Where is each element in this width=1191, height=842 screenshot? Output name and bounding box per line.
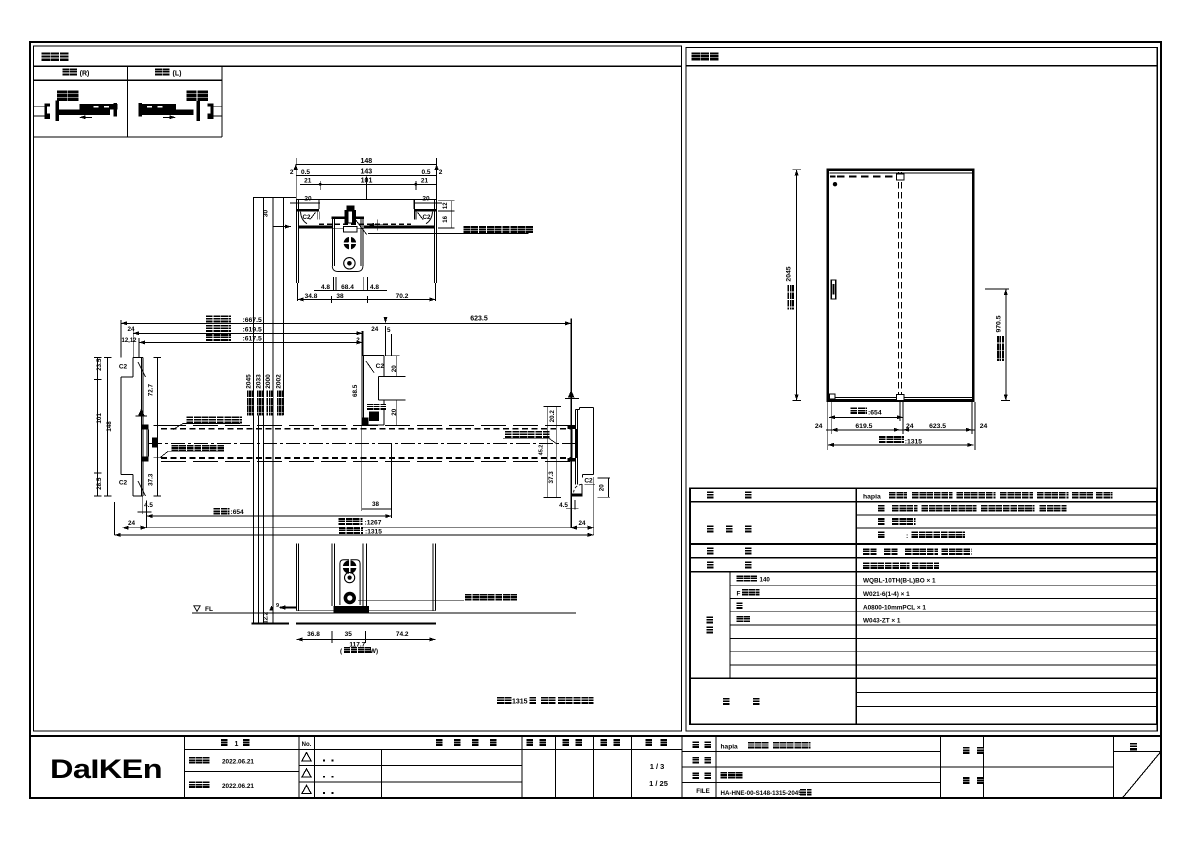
right jamb profile	[580, 407, 594, 409]
lock leader text	[505, 431, 550, 438]
door panel centerline	[148, 442, 576, 444]
svg-text:4.8: 4.8	[321, 284, 330, 291]
revision history sub divider	[381, 750, 383, 798]
spec table thick section lines	[690, 501, 1157, 503]
top detail group	[253, 158, 533, 303]
mohair seal	[367, 404, 386, 410]
door panel top line	[161, 424, 570, 426]
guide lower roller	[344, 592, 356, 604]
long dim vertical 2000	[262, 197, 264, 623]
corner guide bottom left	[830, 394, 836, 399]
dim 101 line	[300, 183, 436, 185]
svg-text:34.8: 34.8	[305, 293, 318, 300]
svg-text:24: 24	[371, 326, 379, 333]
left jamb face pair	[141, 358, 143, 496]
mini diagram right cell arrow	[80, 116, 92, 118]
roller housing walls	[331, 219, 333, 266]
right jamb extension vertical to bottom dims	[593, 477, 595, 535]
door panel bottom line	[161, 460, 570, 462]
label zumei	[693, 772, 699, 779]
pocket dashed vertical pair	[897, 172, 899, 398]
long dim vertical aux	[282, 197, 284, 415]
svg-text:24: 24	[127, 326, 135, 333]
left panel border	[34, 46, 682, 731]
title block top line	[30, 735, 1161, 737]
svg-text:1: 1	[235, 741, 239, 748]
header hidaribiki L	[155, 69, 170, 76]
right section row lines	[682, 751, 941, 753]
ext verticals top of middle	[120, 320, 122, 358]
svg-text:619.5: 619.5	[855, 423, 872, 430]
dim height 2045	[796, 170, 798, 401]
left jamb step bar	[296, 209, 319, 212]
mini diagram right cell wall lines	[34, 105, 45, 107]
dim 38 under middle jamb	[362, 508, 392, 510]
left jamb bottom chamfer	[138, 481, 146, 496]
svg-text:4.5: 4.5	[559, 502, 568, 509]
middle jamb chamfer	[366, 361, 374, 373]
long dim vertical 2045	[252, 197, 254, 623]
line under shomenzu	[686, 65, 1157, 67]
svg-text:C2: C2	[119, 363, 128, 370]
label shiage	[707, 525, 714, 532]
note bottom left	[497, 697, 594, 706]
pocket top square	[896, 174, 903, 180]
svg-text:W): W)	[370, 648, 378, 655]
svg-text:623.5: 623.5	[929, 423, 946, 430]
value finish frame	[878, 532, 884, 539]
diagonal strike line	[355, 219, 367, 235]
connector box	[344, 227, 357, 232]
svg-text:12: 12	[443, 202, 449, 209]
svg-text:148: 148	[360, 158, 372, 165]
label hinban2	[693, 757, 699, 764]
right jamb hook profile	[413, 212, 415, 220]
guide upper roller	[343, 560, 357, 574]
svg-text:68.5: 68.5	[352, 384, 359, 397]
svg-text:140: 140	[760, 576, 771, 583]
dim handle height 970.5	[1005, 289, 1007, 401]
header sakusei	[601, 739, 608, 746]
leader warp note	[187, 417, 242, 424]
svg-text:16: 16	[443, 215, 449, 222]
svg-text:HA-HNE-00-S148-1315-2045-: HA-HNE-00-S148-1315-2045-	[721, 790, 804, 797]
value zumei	[721, 772, 743, 779]
svg-text:2045: 2045	[246, 374, 253, 389]
svg-text:20: 20	[391, 365, 398, 373]
svg-text::654: :654	[868, 410, 882, 417]
ground thick line	[252, 622, 289, 624]
title header row line	[185, 749, 683, 751]
header shukushaku	[646, 739, 653, 746]
svg-text:24: 24	[980, 423, 988, 430]
header migibiki R	[63, 69, 78, 76]
middle jamb dim 20 lower	[380, 399, 406, 401]
label page	[1130, 743, 1137, 751]
door panel bottom verticals right pair	[432, 544, 434, 611]
svg-text:0.5: 0.5	[301, 169, 310, 176]
sublabel slim frame 140	[737, 575, 758, 581]
door handle	[831, 280, 835, 299]
svg-text:9: 9	[276, 603, 279, 609]
top dim 623.5	[386, 322, 572, 324]
mini diagram left cell right cap	[197, 101, 201, 122]
left pocket hooks	[142, 424, 149, 429]
dim wakugai width 1315	[828, 444, 974, 446]
value totte	[863, 548, 877, 555]
sublabel hikite	[737, 616, 750, 622]
floor arrow mark	[270, 605, 274, 610]
svg-text:2: 2	[439, 169, 443, 176]
head frame top edge	[296, 198, 437, 200]
label tanto	[963, 777, 970, 784]
front bottom ext verticals	[827, 402, 829, 450]
label meisho	[693, 742, 699, 749]
svg-text:0.5: 0.5	[421, 169, 430, 176]
left jamb hook profile	[317, 212, 319, 220]
svg-text:(L): (L)	[173, 71, 182, 78]
svg-text:23.5: 23.5	[96, 358, 103, 371]
dim 148	[296, 164, 437, 166]
header kakunin	[563, 739, 570, 746]
svg-text:4.5: 4.5	[144, 502, 153, 509]
long dim vertical 2002	[272, 197, 274, 623]
svg-text:2045: 2045	[786, 266, 793, 281]
svg-text:45.2: 45.2	[539, 445, 545, 456]
svg-text:35: 35	[345, 631, 353, 638]
svg-text:37.3: 37.3	[148, 473, 155, 486]
pocket bottom square	[896, 394, 903, 400]
label shomenzu	[692, 52, 719, 60]
svg-text:4.8: 4.8	[370, 284, 379, 291]
label hinban vertical	[707, 617, 714, 624]
dim wakugai 1315 line	[115, 534, 594, 536]
svg-text:2: 2	[356, 337, 360, 344]
svg-text:2022.06.21: 2022.06.21	[222, 759, 254, 766]
svg-text::617.5: :617.5	[243, 336, 262, 343]
ext verticals top dims	[295, 158, 297, 199]
dim wakuuchi 1267 line	[123, 527, 594, 529]
svg-text:143: 143	[360, 169, 372, 176]
svg-text:C2: C2	[423, 214, 431, 221]
value finish trim	[878, 518, 884, 525]
svg-text:36.8: 36.8	[307, 631, 320, 638]
top dim 619.5	[133, 332, 362, 334]
svg-text:hapia: hapia	[721, 744, 739, 751]
left jamb top step	[133, 357, 143, 359]
svg-text:148: 148	[106, 421, 113, 432]
door frame rect	[828, 170, 974, 401]
door centerline top	[366, 177, 368, 200]
long dim vertical 2033	[258, 410, 260, 623]
value kutsuzuri	[863, 563, 909, 570]
right outer vertical pair	[434, 199, 436, 283]
mini diagram right cell right cap	[113, 103, 117, 116]
svg-text:(R): (R)	[80, 71, 90, 78]
rail dashed hidden line	[319, 223, 411, 225]
spec table outer	[690, 488, 1157, 724]
mini diagram right cell upper bar	[80, 104, 118, 109]
svg-text:2: 2	[290, 169, 294, 176]
value finish panel	[878, 505, 884, 512]
left dim line 148	[107, 358, 109, 496]
spec table thin subrow lines remarks	[856, 691, 1157, 693]
svg-text:No.: No.	[302, 742, 312, 748]
svg-text:DaIKEn: DaIKEn	[50, 754, 162, 784]
label dai 1 han	[221, 739, 228, 746]
svg-text:28.5: 28.5	[96, 477, 103, 490]
svg-text:1 / 3: 1 / 3	[650, 762, 665, 771]
left jamb top chamfer	[138, 362, 146, 377]
left soffit bar	[299, 226, 332, 229]
mini diagram left cell wall lines	[211, 105, 223, 107]
svg-text:W043-ZT × 1: W043-ZT × 1	[863, 618, 901, 625]
svg-text:hapia: hapia	[863, 494, 881, 501]
datum arrow right jamb	[565, 397, 579, 399]
datum cross mark	[368, 224, 383, 226]
mini diagram right cell bold mark	[57, 91, 78, 101]
mini diagram left cell bold mark	[186, 91, 207, 101]
sublabel tobira	[737, 603, 743, 609]
dim tobira 654	[147, 515, 392, 517]
dim tobira width 654	[829, 416, 903, 418]
svg-text:12.2: 12.2	[264, 611, 270, 623]
right jamb step bar	[414, 209, 437, 212]
svg-text:623.5: 623.5	[470, 315, 488, 322]
bottom dim row 4.8 68.4 4.8	[333, 277, 335, 291]
leader flat rail	[358, 599, 464, 601]
door frame inner thin lines	[830, 172, 972, 174]
svg-text::1315: :1315	[905, 438, 923, 445]
svg-text:WQBL-10TH(B-L)BO × 1: WQBL-10TH(B-L)BO × 1	[863, 578, 936, 585]
spec table thin subrow lines parts	[730, 584, 1157, 586]
spec table thin subrow lines finish	[856, 514, 1157, 516]
label youshiki	[707, 491, 714, 498]
title block group	[30, 736, 1161, 797]
svg-text:21: 21	[304, 178, 312, 185]
label kaitei date	[189, 782, 210, 788]
top rail dashed strip	[830, 176, 836, 178]
spec table group	[690, 488, 1157, 724]
datum arrow left jamb	[136, 415, 147, 417]
door panel bottom dashed thick	[161, 457, 570, 459]
svg-text::667.5: :667.5	[243, 317, 262, 324]
svg-text:38: 38	[372, 501, 380, 508]
bottom dims 36.8 35 74.2	[297, 638, 436, 640]
svg-text:1 / 25: 1 / 25	[649, 779, 668, 788]
lock indicator dot	[833, 182, 837, 186]
right soffit bar	[364, 226, 435, 229]
front view group	[686, 52, 1157, 450]
svg-text:2000: 2000	[265, 374, 272, 389]
page diagonal	[1123, 752, 1160, 797]
svg-text:C2: C2	[584, 478, 593, 485]
middle jamb dim 20 upper	[386, 355, 400, 357]
svg-text:74.2: 74.2	[396, 631, 409, 638]
svg-text:C2: C2	[303, 214, 311, 221]
mini diagram left cell wall bracket	[208, 103, 214, 119]
spec table vertical main divider	[855, 488, 857, 724]
svg-text:C2: C2	[376, 363, 385, 370]
label danmenzu	[42, 53, 69, 61]
svg-text:20.2: 20.2	[549, 410, 556, 423]
right pocket end caps	[567, 425, 576, 429]
door panel bottom verticals left pair	[296, 544, 298, 611]
triangle row lines	[299, 765, 522, 767]
bottom dim row 34.8 38 70.2	[296, 283, 298, 301]
svg-text:C2: C2	[119, 480, 128, 487]
label seitei date	[189, 757, 210, 763]
roller flange	[332, 216, 364, 219]
right panel border	[686, 48, 1157, 732]
left outer vertical pair	[295, 199, 297, 283]
soffit bottom line	[299, 228, 435, 230]
leader rail text	[368, 232, 529, 234]
svg-text:FILE: FILE	[696, 788, 709, 795]
revision triangle 2	[302, 769, 311, 777]
svg-text::1267: :1267	[365, 520, 382, 527]
svg-text:12,12: 12,12	[121, 338, 137, 344]
revision triangle 3	[302, 785, 311, 793]
hanger bolt body	[345, 210, 356, 223]
label kenmei	[963, 747, 970, 754]
label totte	[707, 547, 714, 554]
svg-text:37.3: 37.3	[548, 471, 555, 484]
mini diagram right cell left cap	[56, 101, 60, 122]
left jamb bottom step	[121, 474, 133, 476]
svg-text:970.5: 970.5	[995, 315, 1002, 332]
mini diagram left cell left cap	[139, 103, 143, 116]
FL mark	[194, 606, 200, 612]
svg-text:68.4: 68.4	[341, 284, 354, 291]
svg-text:W021-6(1-4) × 1: W021-6(1-4) × 1	[863, 591, 910, 598]
top dim 617.5	[139, 341, 362, 343]
right side dim 20.2 37.3	[547, 407, 549, 498]
jamb inner dim 72.7 37.3	[156, 358, 158, 496]
guide housing rounded box	[340, 560, 360, 605]
guide middle roller	[345, 573, 355, 583]
svg-text::: :	[906, 533, 908, 540]
svg-text:70.2: 70.2	[396, 293, 409, 300]
top dim 667.5	[121, 322, 386, 324]
svg-text:A0800-10mmPCL × 1: A0800-10mmPCL × 1	[863, 604, 926, 611]
623.5 thick extension vertical	[570, 319, 572, 528]
svg-text:24: 24	[906, 423, 914, 430]
svg-text::619.5: :619.5	[243, 326, 262, 333]
lower roller	[344, 258, 355, 269]
mini diagram right cell wall bracket	[44, 103, 50, 119]
left dim line 23.5 101 28.5	[97, 358, 99, 496]
guide bottom band	[333, 606, 369, 612]
door bottom lines	[297, 610, 436, 612]
svg-text:24: 24	[128, 520, 136, 527]
revision triangle 1	[302, 753, 311, 761]
mini table grid	[34, 79, 223, 81]
stub line to long verticals	[253, 196, 296, 198]
left jamb outer line	[120, 377, 122, 475]
right jamb dim 20	[607, 478, 609, 497]
svg-text:20: 20	[598, 484, 605, 492]
floor level line	[192, 612, 576, 614]
door panel top dashed thick	[161, 428, 570, 430]
title block verticals	[184, 736, 186, 797]
dim 12 16 bracket right	[438, 200, 455, 202]
svg-text:21: 21	[421, 178, 429, 185]
svg-text:2002: 2002	[276, 374, 283, 389]
svg-text:5: 5	[387, 327, 391, 334]
svg-text:72.7: 72.7	[148, 383, 155, 396]
right jamb bottom hook	[583, 474, 594, 476]
guide housing outer right pair	[362, 544, 364, 607]
middle jamb profile	[362, 355, 385, 357]
hanger bolt cap	[347, 206, 355, 211]
upper roller	[344, 237, 356, 249]
svg-text:1315: 1315	[512, 699, 528, 706]
header kaitei rireki	[436, 739, 443, 746]
dim 143 line	[296, 174, 437, 176]
svg-text::1315: :1315	[365, 529, 382, 536]
header shonin	[527, 739, 534, 746]
mini diagram left cell upper bar	[138, 104, 176, 109]
bottom detail group	[192, 544, 576, 655]
spec table vertical parts divider	[729, 572, 731, 679]
label kutsuzuri	[707, 561, 714, 568]
svg-text:20: 20	[391, 408, 398, 416]
dim row 24 619.5 24 623.5 24	[826, 429, 975, 431]
line under danmenzu	[34, 65, 682, 67]
guide housing outer left pair	[331, 544, 333, 607]
svg-text:24: 24	[815, 423, 823, 430]
svg-text:24: 24	[578, 520, 586, 527]
svg-text:2022.06.21: 2022.06.21	[222, 783, 254, 790]
seitei kaitei divider	[185, 771, 300, 773]
label biko	[723, 698, 730, 705]
mini diagram left cell main bar	[140, 109, 193, 114]
leader hikido cap	[172, 445, 225, 452]
svg-text:FL: FL	[205, 606, 213, 613]
svg-text:101: 101	[96, 413, 103, 424]
svg-text:F: F	[737, 590, 741, 597]
svg-text::654: :654	[231, 509, 245, 516]
mini diagram left cell arrow	[163, 116, 175, 118]
svg-text:38: 38	[336, 293, 344, 300]
svg-text:2033: 2033	[256, 374, 263, 389]
middle section group	[94, 197, 610, 623]
revision dots rows	[323, 760, 325, 762]
mini diagram right cell main bar	[57, 109, 110, 114]
